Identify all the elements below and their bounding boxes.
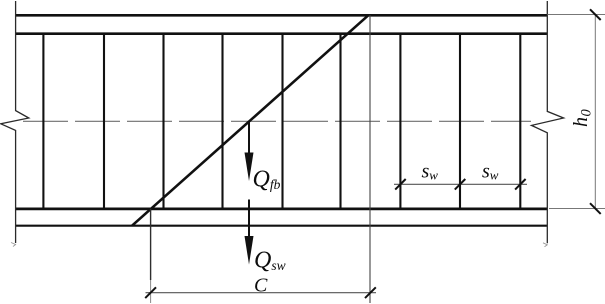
stirrup 5	[281, 34, 283, 209]
beam right cut edge with break symbol	[532, 1, 564, 243]
svg-text:C: C	[254, 275, 268, 297]
Qsw force arrow shaft	[248, 200, 250, 240]
beam bottom flange line (lower)	[15, 225, 548, 227]
h0 top tick	[590, 9, 601, 20]
stirrup 8	[459, 34, 461, 209]
sw dimension line	[394, 183, 527, 185]
Qfb force arrowhead	[245, 153, 254, 182]
centerline (dashed)	[23, 120, 531, 122]
stirrup 1	[42, 34, 44, 209]
beam top flange line (upper)	[15, 14, 548, 17]
beam left cut edge with break symbol	[1, 1, 29, 243]
C dimension left tick	[145, 287, 156, 298]
stirrup 6	[339, 34, 341, 209]
beam bottom flange line (upper)	[15, 208, 548, 211]
h0 top extension line	[548, 14, 605, 16]
h0 bottom tick	[590, 203, 601, 214]
h0 bottom extension line	[549, 208, 605, 210]
C dimension right extension line	[369, 15, 371, 303]
C dimension left extension line	[150, 209, 152, 280]
Qsw force arrowhead	[245, 236, 254, 265]
h0 dimension line	[594, 15, 596, 209]
stirrup 4	[221, 34, 223, 209]
beam top flange line (lower)	[15, 32, 548, 35]
stirrup 9	[519, 34, 521, 209]
sw left tick	[395, 179, 406, 190]
C dimension left extension line (lower part)	[150, 280, 152, 303]
stirrup 2	[103, 34, 105, 209]
sw middle tick	[455, 179, 466, 190]
stirrup 3	[162, 34, 164, 209]
Qfb force arrow shaft	[248, 121, 250, 155]
C dimension right tick	[365, 287, 376, 298]
diagonal shear crack	[132, 15, 368, 225]
left edge end mark	[11, 243, 16, 247]
stirrup 7	[399, 34, 401, 209]
svg-text:h: h	[570, 117, 592, 127]
right edge end mark	[543, 243, 547, 247]
svg-text:0: 0	[579, 109, 595, 117]
sw right tick	[515, 179, 526, 190]
C dimension line	[146, 292, 377, 294]
h0 label (rotated)	[570, 109, 595, 128]
